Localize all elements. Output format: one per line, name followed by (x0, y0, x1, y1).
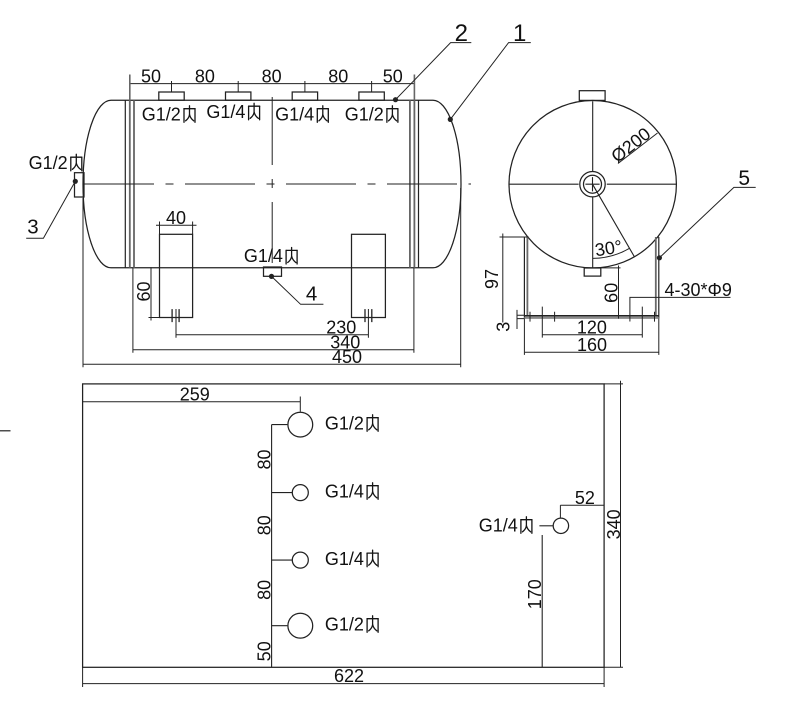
top boss 1 (159, 92, 184, 100)
dim 340 extensions (plan) (604, 384, 623, 667)
boss tick 3 (304, 81, 306, 92)
dim 340 extensions (133, 268, 414, 353)
svg-text:5: 5 (738, 167, 750, 190)
saddle right edge lines (658, 237, 660, 319)
diameter leader line (618, 133, 658, 164)
dim 60 extension (149, 317, 160, 319)
vertical diameter line (592, 101, 594, 268)
dim 230 line (176, 334, 368, 336)
dim 60 line (end view) (618, 266, 620, 319)
plan port circle G1/4 (292, 552, 308, 568)
top dim extension right (413, 75, 415, 101)
slot center extension lines (542, 307, 642, 338)
right port stub (539, 525, 553, 527)
svg-text:80: 80 (254, 580, 274, 600)
callout 4 dot (269, 274, 274, 279)
svg-text:2: 2 (455, 20, 468, 47)
saddle top edges (524, 236, 658, 238)
right port circle (553, 518, 568, 533)
plan port circle G1/2 top (288, 412, 313, 437)
svg-text:4: 4 (306, 283, 317, 306)
tank shell outline (side view) (83, 100, 461, 268)
dim 622 extensions (83, 667, 605, 687)
svg-text:160: 160 (577, 335, 607, 355)
svg-text:80: 80 (328, 67, 348, 87)
right leg (352, 234, 386, 317)
svg-text:80: 80 (254, 449, 274, 469)
top dim extension left (129, 75, 131, 101)
end view shell circle (509, 101, 676, 268)
svg-text:G1/4: G1/4 (325, 549, 364, 569)
svg-text:52: 52 (575, 488, 595, 508)
callout 5 dot (657, 255, 662, 260)
svg-text:4-30*Φ9: 4-30*Φ9 (665, 280, 732, 300)
dim 3 extensions (517, 315, 525, 318)
callout 5 leader (659, 187, 755, 257)
dim 340 line (133, 349, 414, 351)
top boss 3 (292, 92, 317, 100)
end view bottom boss (584, 268, 601, 276)
plan port circle G1/4 (292, 485, 308, 501)
boss tick 1 (171, 81, 173, 92)
right port vertical line (541, 535, 543, 667)
dim 40 line (156, 224, 197, 226)
callout 3 dot (73, 179, 78, 184)
dim 450 extensions (83, 188, 461, 367)
left leg break marks (172, 309, 179, 322)
30 degree radius line (593, 184, 635, 256)
svg-text:G1/2: G1/2 (325, 414, 364, 434)
callout 1 leader (450, 43, 531, 120)
dim 450 line (83, 363, 461, 365)
svg-text:3: 3 (493, 322, 513, 332)
horizontal diameter line (509, 183, 676, 185)
dim 259 tick (299, 397, 301, 412)
30 degree arc (593, 248, 630, 258)
center port crosshair (585, 177, 599, 191)
svg-text:60: 60 (134, 281, 154, 301)
svg-text:50: 50 (141, 67, 161, 87)
svg-text:G1/2: G1/2 (345, 105, 384, 125)
top boss 2 (226, 92, 251, 100)
port stubs (272, 425, 293, 626)
callout 3 leader (26, 181, 75, 238)
slot hole ticks (530, 312, 655, 322)
left end boss (75, 173, 85, 197)
callout 2 dot (393, 97, 398, 102)
callout 1 dot (448, 117, 453, 122)
svg-text:170: 170 (525, 579, 545, 609)
svg-text:340: 340 (604, 509, 624, 539)
svg-text:G1/4: G1/4 (244, 246, 283, 266)
dim 120 line (542, 334, 642, 336)
dim 160 line (525, 351, 659, 353)
dim 97 line (502, 234, 504, 323)
dim 160 extensions (524, 319, 658, 355)
right weld seam lines (418, 100, 420, 268)
top dimension line 50-80-80-80-50 (130, 83, 415, 85)
svg-text:80: 80 (262, 67, 282, 87)
dim 340 line (plan) (620, 381, 622, 668)
top boss 4 (359, 92, 384, 100)
bottom boss (264, 267, 282, 276)
bottom boss extension line (601, 267, 621, 269)
end view top boss (579, 91, 605, 101)
left margin frame dash (0, 430, 11, 432)
dim 622 line (83, 683, 605, 685)
dim 3 line (516, 310, 518, 329)
dim 259 line (83, 401, 301, 403)
svg-text:G1/2: G1/2 (325, 615, 364, 635)
dim 52 line (560, 504, 604, 506)
svg-text:80: 80 (195, 67, 215, 87)
plan port circle G1/2 bottom (288, 613, 313, 638)
dim 97 extension (500, 236, 525, 238)
svg-text:G1/4: G1/4 (479, 516, 518, 536)
dim 230 extensions (176, 309, 368, 338)
svg-text:Ø200: Ø200 (607, 124, 654, 167)
svg-text:G1/4: G1/4 (206, 102, 245, 122)
right leg break marks (365, 309, 372, 322)
plan view outline rectangle (83, 384, 605, 667)
svg-text:G1/4: G1/4 (275, 105, 314, 125)
callout 2 leader (396, 43, 472, 100)
center port outer circle (580, 172, 605, 197)
port connector line (271, 425, 273, 668)
svg-text:G1/2: G1/2 (142, 105, 181, 125)
boss tick 4 (371, 81, 373, 92)
left weld seam lines (124, 100, 126, 268)
svg-text:30°: 30° (594, 236, 624, 260)
svg-text:622: 622 (334, 666, 364, 686)
vertical centerline (271, 97, 273, 263)
horizontal centerline (84, 183, 471, 185)
svg-text:50: 50 (383, 67, 403, 87)
saddle left edge lines (523, 237, 525, 319)
callout 4 leader (272, 276, 324, 304)
svg-text:80: 80 (254, 515, 274, 535)
svg-text:G1/2: G1/2 (29, 153, 68, 173)
svg-text:40: 40 (166, 208, 186, 228)
dim 52 tick (559, 505, 561, 517)
svg-text:1: 1 (513, 20, 526, 47)
svg-text:97: 97 (482, 269, 502, 289)
svg-text:3: 3 (27, 216, 38, 239)
svg-text:259: 259 (180, 385, 210, 405)
boss tick 2 (237, 81, 239, 92)
dim 40 extensions (160, 222, 193, 235)
dim 60 line (left leg) (150, 267, 152, 320)
svg-text:60: 60 (602, 283, 622, 303)
center port inner circle (584, 175, 602, 193)
left leg (160, 234, 193, 317)
svg-text:50: 50 (254, 641, 274, 661)
svg-text:G1/4: G1/4 (325, 482, 364, 502)
saddle flange plate (524, 315, 658, 317)
svg-text:450: 450 (332, 347, 362, 367)
bolt note leader (630, 297, 731, 321)
